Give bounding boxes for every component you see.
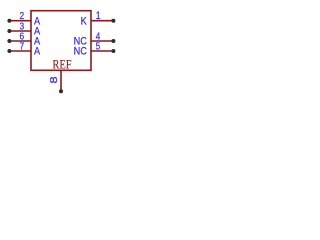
pin 1 name K	[81, 16, 87, 28]
pin 6 name A	[34, 36, 40, 48]
svg-text:7: 7	[19, 41, 24, 52]
pin 3 name A	[34, 26, 40, 38]
pin 2 name A	[34, 16, 40, 28]
pin 2 number	[19, 10, 24, 21]
pin 2 wire	[9, 20, 31, 22]
pin 7 name A	[34, 46, 40, 58]
pin 6 wire	[9, 40, 31, 42]
svg-text:1: 1	[96, 10, 101, 22]
svg-text:2: 2	[19, 10, 24, 21]
svg-text:K: K	[81, 16, 87, 28]
pin 7 dot	[7, 49, 11, 53]
pin 8 wire	[60, 70, 62, 91]
pin 2 dot	[7, 19, 11, 23]
pin 6 dot	[7, 39, 11, 43]
pin 8 number (rotated)	[50, 76, 60, 83]
pin 5 name NC	[74, 46, 87, 58]
pin 1 wire	[91, 20, 113, 22]
pin 4 number	[96, 31, 101, 42]
svg-text:NC: NC	[74, 46, 87, 58]
pin 4 name NC	[74, 36, 87, 48]
pin 5 dot	[111, 49, 115, 53]
pin 4 dot	[111, 39, 115, 43]
pin 1 dot	[111, 19, 115, 23]
svg-text:5: 5	[96, 41, 101, 52]
svg-text:A: A	[34, 46, 40, 58]
pin 7 wire	[9, 50, 31, 52]
pin 3 number	[19, 21, 24, 32]
pin 1 number	[96, 10, 101, 22]
symbol body U1	[31, 11, 91, 71]
svg-text:REF: REF	[52, 59, 71, 72]
pin 7 number	[19, 41, 24, 52]
pin 5 wire	[91, 50, 113, 52]
pin 4 wire	[91, 40, 113, 42]
pin 5 number	[96, 41, 101, 52]
pin 3 dot	[7, 29, 11, 33]
pin 8 dot	[59, 89, 63, 93]
pin 6 number	[19, 31, 24, 42]
svg-text:8: 8	[50, 76, 60, 83]
reference REF	[52, 59, 71, 72]
pin 3 wire	[9, 30, 31, 32]
